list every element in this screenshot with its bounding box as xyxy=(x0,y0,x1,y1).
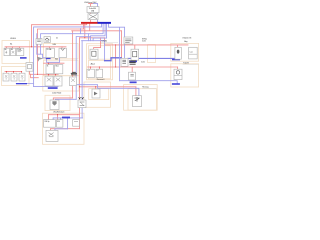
load branch1 b xyxy=(189,47,198,59)
wire red: drops into group1 boxes xyxy=(7,47,20,49)
glyph: row2 box fan mark xyxy=(49,133,54,137)
label: branch2 underline xyxy=(183,63,199,65)
wire red: branch2 bus y=67 xyxy=(88,66,178,68)
wire blue: below meter M2 xyxy=(81,108,83,118)
fan F1 xyxy=(45,76,53,86)
wire red: vertical 115.6 to branch2 xyxy=(115,45,117,67)
node: lamp bus junctions xyxy=(6,71,7,72)
wire red: branch2 drops xyxy=(90,67,177,72)
glyph: M2 entry chevrons xyxy=(79,97,84,99)
glyph: meter MT2 scribble xyxy=(45,38,49,41)
container: middle group inner lower xyxy=(89,60,111,78)
glyph: lamp L1 cross xyxy=(5,75,8,80)
glyph: branch1 breaker mark xyxy=(177,50,180,54)
lamp L2 xyxy=(11,73,17,81)
wire red: lamp drops xyxy=(7,72,22,74)
wire blue: left neutral riser y26.9 xyxy=(34,23,102,86)
glyph: fan F2 blades xyxy=(56,78,60,82)
load box MG4 xyxy=(92,89,100,98)
wire blue: hub gamma 3 xyxy=(93,23,107,40)
wire red: bottom-left row2 bus xyxy=(50,129,79,131)
glyph: B3 mark xyxy=(134,97,139,102)
bus bar red (phase) xyxy=(81,22,98,24)
container: middle group inner upper xyxy=(89,46,111,60)
wire blue: below meter down xyxy=(37,44,41,54)
node: lower bus junction xyxy=(37,74,38,75)
hub box label (distribution) xyxy=(124,37,133,44)
node: middle feed junction xyxy=(84,37,85,38)
junction blob lamp neutral xyxy=(16,83,27,84)
wire red: second left riser xyxy=(38,23,84,74)
wire blue: neutral y33.7 to meter xyxy=(41,23,104,38)
svg-text:HV-Einsp.20kV: HV-Einsp.20kV xyxy=(84,2,97,4)
wire red: long left-middle riser xyxy=(79,38,81,100)
fan F2 xyxy=(54,76,62,86)
svg-text:UV-EG: UV-EG xyxy=(10,38,16,40)
wire blue: hub horizontal y40.7 xyxy=(82,40,105,42)
glyph: MG1 meter face xyxy=(92,51,96,56)
hub box BBb xyxy=(129,72,136,80)
load box GA group2 xyxy=(46,48,54,57)
svg-text:Zuluft Halle: Zuluft Halle xyxy=(52,92,61,95)
container: middle bottom group xyxy=(84,82,111,107)
wire blue: hub gamma 1 drop xyxy=(88,34,90,41)
wire red: drop into lower box xyxy=(48,63,50,64)
wire blue: transformer neutral lead xyxy=(93,4,97,22)
label: right-middle underline xyxy=(142,88,156,90)
svg-text:A1: A1 xyxy=(10,42,12,45)
glyph: lamp L2 cross xyxy=(13,75,16,80)
container: group 2 lower row xyxy=(44,60,79,76)
glyph: MG4 arrow xyxy=(94,92,98,96)
node: bottom-left bus junction xyxy=(57,114,58,115)
wire red: meter M1 drop and lower bus y=74.3 xyxy=(30,71,59,74)
container: lower feeder group xyxy=(45,95,70,110)
wire red: bottom-left drops xyxy=(49,115,58,120)
node: feeder pair junction left xyxy=(79,86,80,87)
wire red: riser below meter M2 xyxy=(79,108,81,129)
wire red: middle box feed xyxy=(94,38,101,49)
wire red: lower feeder entry xyxy=(53,98,72,100)
node: group2 lower junction xyxy=(48,63,49,64)
transformer T1 upper box xyxy=(87,7,99,13)
junction blob branch1 end xyxy=(172,59,180,61)
glyph: breaker Q2 cross xyxy=(12,51,14,53)
wire blue: feeder pair y84.7 xyxy=(76,85,139,96)
container: right branch 2 xyxy=(171,64,199,87)
lamp L3 xyxy=(19,73,25,81)
glyph: fan F1 blades xyxy=(47,78,51,82)
meter M1 left xyxy=(26,63,33,72)
svg-text:P=4kW: P=4kW xyxy=(183,62,189,64)
glyph: meter MT marks xyxy=(37,40,41,42)
junction blob under fan boxes xyxy=(48,87,58,89)
breaker branch2 a xyxy=(174,69,182,79)
junction blob branch2 end xyxy=(172,83,180,85)
wire blue: right risers from bus xyxy=(109,23,125,80)
glyph: branch2 socket circle xyxy=(176,71,179,74)
wire red: small z-stub xyxy=(31,74,39,77)
container: group 2 upper row xyxy=(44,44,79,59)
bus bar blue (neutral) xyxy=(98,22,112,24)
svg-text:UV-B2: UV-B2 xyxy=(102,40,107,42)
wire red: corner into right bus y=44.9 xyxy=(105,38,188,45)
container: distribution group 1 (top-left) xyxy=(2,41,30,64)
svg-text:B6: B6 xyxy=(11,49,13,51)
container: middle group outer xyxy=(87,44,113,80)
container: right-middle inner xyxy=(128,89,157,111)
glyph: meter M2 sigma xyxy=(80,102,85,106)
wire red: lamp bus y=71.6 xyxy=(5,71,22,73)
wire red: left long drop to lower group xyxy=(72,31,74,98)
node: fan bus junctions xyxy=(48,74,49,75)
glyph: fan F3 mark xyxy=(71,79,75,82)
wire blue: bottom-left row2 neutral xyxy=(55,129,68,131)
container: fan group xyxy=(43,76,79,91)
wire red: drop into box MG4 xyxy=(95,87,97,89)
wire blue: vertical to middle neutral xyxy=(104,41,106,61)
container: MG4 sub-frame xyxy=(89,89,109,100)
container: bottom-left group xyxy=(43,113,85,144)
node: right bus junction xyxy=(115,44,116,45)
wire blue: bottom-left neutral y117.9 xyxy=(53,118,83,129)
svg-text:5x16: 5x16 xyxy=(142,41,146,43)
glyph: branch1 load divider xyxy=(189,53,198,55)
node: feeder pair junction mid xyxy=(95,86,96,87)
glyph: socket GB notch xyxy=(61,48,65,50)
glyph: BB face xyxy=(133,51,137,56)
wire red: drop into hub box BB xyxy=(134,45,136,49)
glyph: lamp L3 cross xyxy=(21,75,24,80)
wire blue: branch1 neutral y58.4 xyxy=(128,57,176,59)
junction blob bottom-left group xyxy=(62,117,70,119)
meter MT2 xyxy=(44,37,50,43)
load box lower feeder xyxy=(50,100,59,110)
wire red: drop into box B3 xyxy=(135,87,137,96)
wire red: drops into group2 upper boxes xyxy=(50,47,63,49)
wire red: hub line y=30.8 going right xyxy=(72,23,122,31)
load row1 box a bottom-left xyxy=(44,120,56,128)
svg-text:L2: L2 xyxy=(97,70,99,72)
glyph: gray arrow marker left xyxy=(37,57,43,62)
fan F3 xyxy=(70,77,77,86)
container: right branch 1 xyxy=(171,43,199,61)
wire red: bottom-left bus y=114.7 xyxy=(49,114,80,116)
container: right-middle outer xyxy=(124,85,158,111)
wire blue: jog under group2 xyxy=(41,54,50,58)
svg-text:Ab1: Ab1 xyxy=(55,58,58,61)
wire blue: middle neutral y60.7 xyxy=(105,58,122,61)
breaker Q1 group1 box a xyxy=(4,48,10,55)
wire blue: left blue riser x76.2 xyxy=(76,37,90,100)
wire red: vertical feed to hub box xyxy=(121,31,123,59)
wire red: left riser from bus tap xyxy=(32,23,87,47)
wire blue: short riser x80.5 xyxy=(80,29,82,34)
wire red: group1+group2 feed bus y=46.8 xyxy=(5,46,66,48)
glyph: connector cluster above F3 xyxy=(71,72,77,75)
hub box BA xyxy=(121,58,128,66)
wire red: feeder pair horizontal y=86.8 xyxy=(80,86,136,88)
load row1 box b bottom-left xyxy=(57,120,63,128)
svg-text:B6: B6 xyxy=(5,49,7,51)
junction blob under hub box BB xyxy=(130,60,137,62)
wire red: tap to middle feed xyxy=(84,23,86,38)
container: lamp group (left, lower) xyxy=(2,67,30,86)
breaker Q2 group1 box b xyxy=(10,48,15,55)
wire blue: lower feeder entry xyxy=(55,98,76,101)
node: branch2 drop junctions xyxy=(90,67,91,68)
junction blob under group1 box xyxy=(20,57,27,59)
label: middle title underline xyxy=(101,42,118,44)
svg-text:Reserve1: Reserve1 xyxy=(97,79,105,81)
svg-text:Abg 2: Abg 2 xyxy=(91,62,95,65)
breaker branch1 a xyxy=(175,47,181,59)
wire blue: branch2 neutral y80.7 xyxy=(120,81,178,84)
junction blob branch2 mid xyxy=(130,82,137,84)
meter MT inline xyxy=(36,39,42,45)
load box GC group2 lower xyxy=(46,65,53,74)
svg-text:L1: L1 xyxy=(88,70,90,72)
hub box BB xyxy=(131,49,139,60)
load row2 box bottom-left xyxy=(46,130,58,141)
glyph: row1 box c faint mark xyxy=(74,121,78,123)
wire blue: lamp group neutral stub xyxy=(16,83,33,85)
glyph: branch2 divider xyxy=(174,74,182,76)
wire blue: neutral riser x82.1 to meter M2 xyxy=(81,41,83,100)
load box MG2 xyxy=(87,69,94,77)
glyph: breaker Q1 mark xyxy=(5,51,7,54)
svg-text:B16 3p: B16 3p xyxy=(45,121,50,123)
junction blob under group2 box A xyxy=(46,58,51,60)
wire blue: parallel riser x36.8 xyxy=(36,34,38,55)
wire red: group2 lower bus y=63.2 xyxy=(44,62,64,64)
svg-text:Heizung: Heizung xyxy=(142,86,148,88)
svg-text:5x16: 5x16 xyxy=(141,61,145,63)
load box MG1 xyxy=(90,49,98,59)
load row1 box c bottom-left xyxy=(73,120,80,127)
glyph: breaker Q3 line xyxy=(17,50,22,51)
svg-text:UV-Werkstatt: UV-Werkstatt xyxy=(53,111,65,114)
wire red: fan box drops xyxy=(49,74,56,76)
wire red: transformer primary lead xyxy=(89,4,94,22)
wire red: middle horizontal y=38.3 xyxy=(80,37,105,39)
glyph: hub label box rows xyxy=(125,39,131,43)
glyph: BBb mark xyxy=(130,74,133,76)
svg-text:Z1: Z1 xyxy=(56,38,58,40)
wire blue: fan group neutral y86.6 xyxy=(34,86,58,88)
glyph: transformer T2 cross xyxy=(89,15,97,19)
glyph: dark scribble right of BA xyxy=(129,61,136,64)
wire blue: group2 lower link y62.3 xyxy=(47,58,60,63)
load box B3 xyxy=(133,96,142,107)
meter M2 xyxy=(78,100,86,108)
glyph: BA rows xyxy=(122,60,126,63)
wire red: branch1 drop into breaker xyxy=(177,45,179,47)
socket box GB group2 xyxy=(59,48,66,57)
svg-text:B10: B10 xyxy=(57,121,60,123)
svg-text:kWh: kWh xyxy=(53,44,56,46)
lamp L1 xyxy=(3,73,9,81)
node: branch2 bus junction xyxy=(115,66,116,67)
glyph: lower feeder arrow xyxy=(52,101,56,105)
load box GD group2 lower xyxy=(55,65,63,74)
breaker Q3 group1 box c xyxy=(16,48,23,55)
container: small frame center xyxy=(148,45,156,63)
load box MG3 xyxy=(96,69,103,77)
node: group1 feed junction xyxy=(31,46,32,47)
wire blue: hub gamma 2 xyxy=(91,23,106,40)
glyph: meter M1 face xyxy=(28,64,32,68)
svg-text:UV-A 2.OG: UV-A 2.OG xyxy=(182,37,191,40)
transformer T2 lower box xyxy=(88,14,98,20)
